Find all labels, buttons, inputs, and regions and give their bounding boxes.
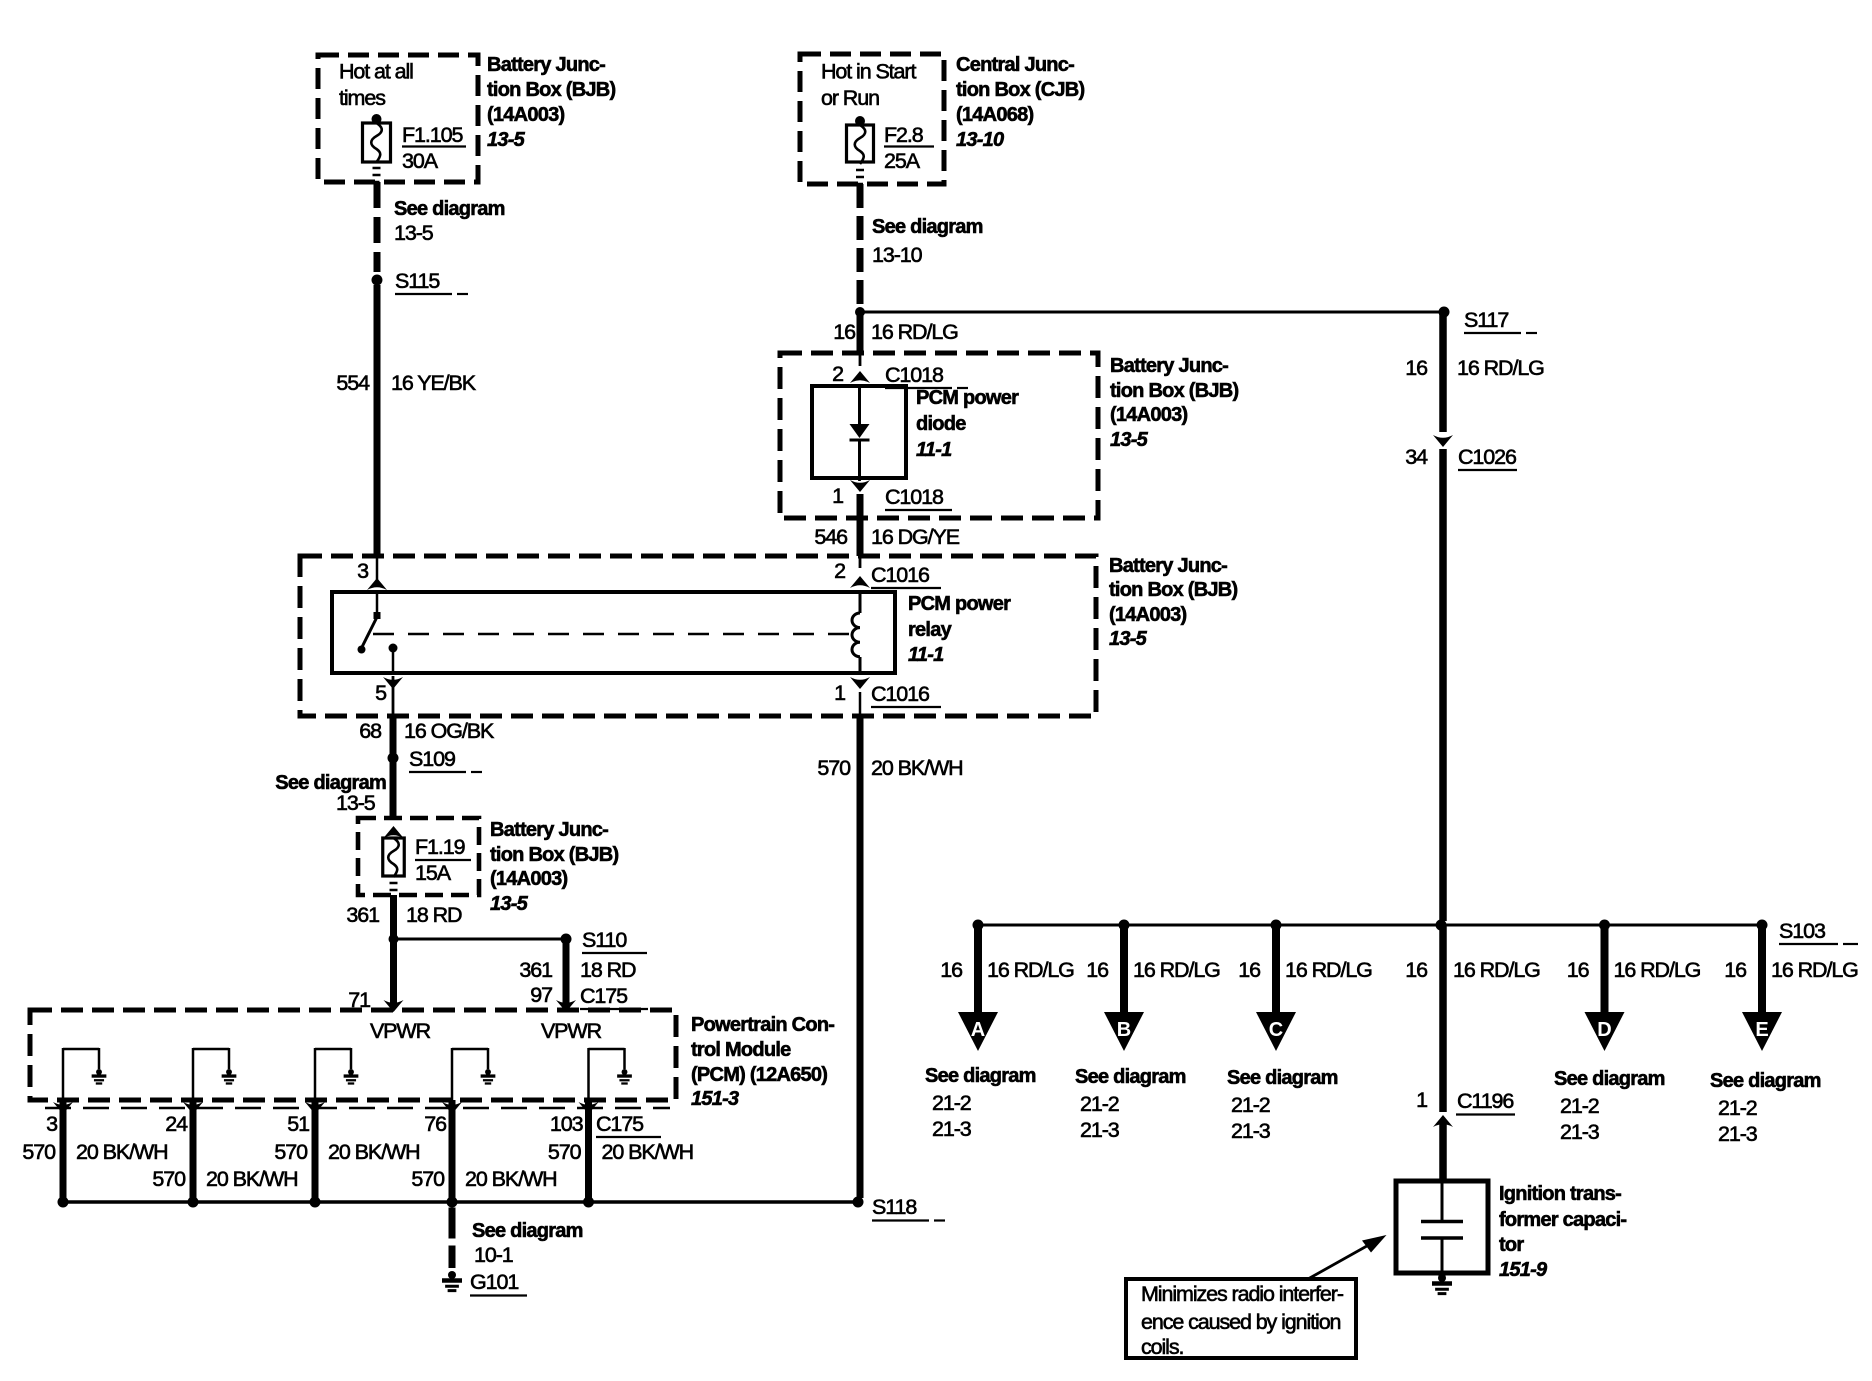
label: Ignition transformer capacitor 151-9 — [1499, 1183, 1626, 1281]
svg-text:10-1: 10-1 — [474, 1243, 513, 1267]
svg-text:Hot at all: Hot at all — [339, 60, 413, 84]
label: Hot at all times — [339, 60, 413, 111]
svg-text:F1.19: F1.19 — [415, 835, 465, 859]
wire 16 16 RD/LG: S117 to C1026 — [1439, 312, 1447, 432]
pin 1 connector arrow C1018 — [832, 478, 870, 508]
label: Hot in Start or Run — [821, 60, 916, 111]
connector label C1016 (pin 2) — [871, 563, 941, 588]
wire 16 RD/LG branch C — [1272, 928, 1280, 1012]
bus junction node 3 — [310, 1197, 321, 1208]
svg-text:tion Box (BJB): tion Box (BJB) — [487, 79, 615, 101]
wire label 16 / 16 RD/LG (branch D) — [1567, 958, 1701, 982]
bus junction node (main) — [1436, 920, 1447, 931]
battery junction box BJB (diode) dashed outline — [780, 353, 1098, 518]
label: See diagram 10-1 — [472, 1220, 583, 1267]
svg-text:See diagram: See diagram — [394, 198, 505, 220]
wire 16 RD/LG branch A — [974, 928, 982, 1012]
svg-text:151-3: 151-3 — [691, 1088, 739, 1110]
svg-text:2: 2 — [832, 362, 843, 386]
svg-text:21-2: 21-2 — [932, 1091, 971, 1115]
wire label 16 / 16 RD/LG (branch E) — [1724, 958, 1858, 982]
svg-text:former capaci-: former capaci- — [1499, 1209, 1626, 1231]
svg-text:C1016: C1016 — [871, 563, 930, 587]
svg-text:30A: 30A — [402, 149, 439, 173]
wire label 361 / 18 RD (S110 branch) — [519, 958, 636, 982]
svg-text:13-10: 13-10 — [956, 129, 1004, 151]
wire: S103 bus to C1196 — [1439, 925, 1447, 1112]
PCM pin 3 connector arrow — [53, 1102, 73, 1114]
wire 361 18 RD / 97 C175: S110 to PCM pin 97 — [563, 939, 570, 1008]
svg-text:16 YE/BK: 16 YE/BK — [391, 371, 477, 395]
svg-text:S109: S109 — [409, 747, 455, 771]
wire: branch to S110 — [394, 938, 567, 941]
svg-text:tion Box (BJB): tion Box (BJB) — [490, 844, 618, 866]
pin 2 connector arrow C1018 — [832, 362, 870, 386]
connector label C1196 — [1456, 1089, 1515, 1115]
svg-text:tion Box (BJB): tion Box (BJB) — [1109, 579, 1237, 601]
ground symbol inside PCM 1 — [92, 1069, 107, 1083]
svg-text:16 RD/LG: 16 RD/LG — [987, 958, 1074, 982]
svg-text:11-1: 11-1 — [908, 644, 944, 666]
svg-text:C175: C175 — [580, 984, 628, 1008]
wire label 16 / 16 RD/LG (branch A) — [940, 958, 1074, 982]
pin 97 connector arrow into PCM — [556, 1000, 576, 1012]
capacitor C symbol — [1421, 1183, 1463, 1271]
svg-text:VPWR: VPWR — [370, 1019, 431, 1043]
pin 24 label — [165, 1112, 188, 1136]
svg-text:S117: S117 — [1464, 308, 1508, 332]
label: Battery Junction Box (BJB) (14A003) 13-5 — [487, 54, 615, 151]
svg-text:361: 361 — [346, 903, 379, 927]
svg-text:13-5: 13-5 — [394, 221, 434, 245]
svg-text:trol Module: trol Module — [691, 1039, 791, 1061]
svg-text:21-2: 21-2 — [1560, 1094, 1599, 1118]
splice S110 — [561, 928, 648, 953]
ground G101 — [442, 1270, 527, 1296]
wire label 570 / 20 BK/WH (pin 3) — [22, 1140, 167, 1164]
svg-text:Hot in Start: Hot in Start — [821, 60, 916, 84]
connector label C1018 (pin 2) — [885, 363, 968, 388]
svg-text:16: 16 — [1405, 958, 1428, 982]
svg-text:See diagram: See diagram — [1710, 1070, 1821, 1092]
battery junction box BJB (relay) dashed outline — [300, 556, 1096, 716]
wire: junction to splice S117 — [860, 311, 1444, 314]
label: See diagram 21-2 21-3 (E) — [1710, 1070, 1821, 1146]
svg-text:21-2: 21-2 — [1718, 1096, 1757, 1120]
svg-text:68: 68 — [359, 719, 382, 743]
bus junction node A — [973, 920, 984, 931]
svg-text:21-3: 21-3 — [1560, 1120, 1600, 1144]
PCM pin 51 connector arrow — [305, 1102, 325, 1114]
svg-text:13-5: 13-5 — [1109, 628, 1148, 650]
svg-text:coils.: coils. — [1141, 1335, 1184, 1359]
svg-text:16 RD/LG: 16 RD/LG — [1285, 958, 1372, 982]
svg-text:15A: 15A — [415, 861, 452, 885]
svg-text:1: 1 — [834, 681, 845, 705]
net label VPWR (pin 71) — [370, 1019, 431, 1043]
connector label C1016 (pin 1) — [871, 682, 941, 707]
svg-text:E: E — [1755, 1019, 1768, 1041]
svg-text:361: 361 — [519, 958, 552, 982]
svg-text:D: D — [1597, 1019, 1611, 1041]
ground symbol inside PCM 3 — [344, 1069, 359, 1083]
wire label 16 / 16 RD/LG (right) — [1405, 356, 1544, 380]
svg-text:16 OG/BK: 16 OG/BK — [404, 719, 495, 743]
svg-text:S110: S110 — [582, 928, 627, 952]
svg-text:See diagram: See diagram — [1227, 1067, 1338, 1089]
relay K (PCM power relay) body rectangle — [332, 592, 895, 673]
svg-text:18 RD: 18 RD — [580, 958, 636, 982]
svg-text:16: 16 — [1238, 958, 1261, 982]
svg-text:times: times — [339, 86, 385, 110]
relay coil (pins 2-1) — [852, 592, 860, 673]
splice S118 — [853, 1195, 946, 1221]
wire: S118 to G101 (dashed thick) — [449, 1208, 456, 1269]
svg-text:See diagram: See diagram — [472, 1220, 583, 1242]
svg-text:(PCM) (12A650): (PCM) (12A650) — [691, 1064, 827, 1086]
wire label 16 / 16 RD/LG (diode feed) — [833, 320, 958, 344]
svg-text:25A: 25A — [884, 149, 921, 173]
svg-text:20 BK/WH: 20 BK/WH — [465, 1167, 557, 1191]
svg-text:570: 570 — [548, 1140, 582, 1164]
wire: capacitor to ground — [1439, 1271, 1446, 1278]
pin 51 label — [287, 1112, 309, 1136]
svg-text:tion Box (CJB): tion Box (CJB) — [956, 79, 1084, 101]
relay switch (pins 3-5) — [358, 592, 398, 673]
ground (capacitor) — [1432, 1274, 1452, 1294]
wire 570 20 BK/WH pin 51 to S118 bus — [312, 1100, 319, 1202]
svg-text:S118: S118 — [872, 1195, 917, 1219]
pin 5 connector arrow — [375, 677, 403, 705]
wire 16 RD/LG branch B — [1120, 928, 1128, 1012]
wire label 570 / 20 BK/WH (pin 24) — [152, 1167, 297, 1191]
off-page arrow C — [1256, 1012, 1296, 1051]
svg-text:13-10: 13-10 — [872, 243, 923, 267]
svg-text:C: C — [1269, 1019, 1283, 1041]
svg-text:Powertrain Con-: Powertrain Con- — [691, 1014, 834, 1036]
PCM internal ground loop 4 — [452, 1048, 488, 1100]
off-page arrow E — [1742, 1012, 1782, 1051]
label: Battery Junction Box (BJB) (14A003) 13-5 (relay) — [1109, 555, 1237, 650]
label: See diagram 13-5 (S109) — [275, 772, 386, 815]
svg-text:5: 5 — [375, 681, 387, 705]
svg-text:13-5: 13-5 — [1110, 429, 1149, 451]
connector label C175 (pin 103) — [596, 1112, 661, 1137]
svg-text:21-3: 21-3 — [1718, 1122, 1758, 1146]
splice S103 label — [1779, 919, 1858, 944]
svg-text:21-3: 21-3 — [1231, 1119, 1271, 1143]
svg-text:151-9: 151-9 — [1499, 1259, 1548, 1281]
label: See diagram 13-5 (left) — [394, 198, 505, 245]
wire label 554 / 16 YE/BK — [336, 371, 476, 395]
label: See diagram 21-2 21-3 (D) — [1554, 1068, 1665, 1144]
label: Battery Junction Box (BJB) (14A003) 13-5 (diode) — [1110, 355, 1238, 451]
svg-text:diode: diode — [916, 413, 966, 435]
wire 16 RD/LG branch D — [1601, 928, 1609, 1012]
PCM pin 24 connector arrow — [183, 1102, 203, 1114]
battery junction box BJB (F1.105) dashed outline — [318, 55, 478, 182]
node: junction at S110 branch — [389, 934, 399, 944]
svg-text:See diagram: See diagram — [925, 1065, 1036, 1087]
wire 361 18 RD: F1.19 to PCM pin 71 — [390, 895, 397, 1008]
svg-text:S115: S115 — [395, 269, 440, 293]
svg-text:S103: S103 — [1779, 919, 1826, 943]
svg-text:Central Junc-: Central Junc- — [956, 54, 1074, 76]
svg-text:Minimizes radio interfer-: Minimizes radio interfer- — [1141, 1282, 1344, 1306]
pin 97 label and connector C175 — [530, 983, 648, 1009]
wire label 546 / 16 DG/YE — [814, 525, 959, 549]
wire: C1196 to ignition transformer capacitor — [1439, 1124, 1447, 1181]
svg-text:2: 2 — [834, 559, 845, 583]
fuse F1.19 — [383, 838, 405, 897]
pin 1 connector arrow C1196 — [1416, 1088, 1453, 1127]
svg-text:or Run: or Run — [821, 86, 879, 110]
wire 554 16 YE/BK: S115 to PCM power relay pin 3 — [374, 285, 381, 582]
svg-text:16: 16 — [833, 320, 856, 344]
wire: fuse F1.105 to S115 (dashed thick) — [374, 182, 381, 272]
svg-text:20 BK/WH: 20 BK/WH — [206, 1167, 298, 1191]
wire label 361 / 18 RD — [346, 903, 462, 927]
svg-text:570: 570 — [411, 1167, 445, 1191]
svg-text:16 RD/LG: 16 RD/LG — [1771, 958, 1858, 982]
svg-text:18 RD: 18 RD — [406, 903, 462, 927]
svg-text:3: 3 — [46, 1112, 58, 1136]
svg-text:51: 51 — [287, 1112, 309, 1136]
svg-text:16: 16 — [1405, 356, 1428, 380]
label: PCM power relay 11-1 — [908, 593, 1011, 666]
ground symbol inside PCM 5 — [617, 1069, 632, 1083]
svg-text:(14A003): (14A003) — [1109, 604, 1186, 626]
svg-text:570: 570 — [152, 1167, 186, 1191]
PCM pin 76 connector arrow — [442, 1102, 462, 1114]
callout note box — [1126, 1279, 1356, 1359]
wire label 570 / 20 BK/WH (pin 51) — [274, 1140, 419, 1164]
wire label 16 / 16 RD/LG (branch B) — [1086, 958, 1220, 982]
svg-text:Battery Junc-: Battery Junc- — [1109, 555, 1227, 577]
wire 16 RD/LG branch E — [1758, 928, 1766, 1012]
svg-text:tion Box (BJB): tion Box (BJB) — [1110, 380, 1238, 402]
wire 546 16 DG/YE: diode to relay pin 2 — [857, 494, 864, 568]
svg-text:A: A — [971, 1019, 985, 1041]
svg-text:VPWR: VPWR — [541, 1019, 602, 1043]
wire label 570 / 20 BK/WH (pin 76) — [411, 1167, 556, 1191]
svg-text:C1018: C1018 — [885, 485, 944, 509]
wire 570 20 BK/WH pin 3 to S118 bus — [60, 1100, 67, 1202]
svg-text:3: 3 — [357, 559, 369, 583]
splice S115 — [372, 269, 469, 294]
label: Central Junction Box (CJB) (14A068) 13-10 — [956, 54, 1084, 151]
label: See diagram 21-2 21-3 (C) — [1227, 1067, 1338, 1143]
PCM power diode body rectangle — [812, 386, 906, 478]
svg-text:Battery Junc-: Battery Junc- — [487, 54, 605, 76]
PCM pin 103 connector arrow — [579, 1102, 599, 1114]
svg-text:(14A003): (14A003) — [1110, 404, 1187, 426]
svg-text:C1026: C1026 — [1458, 445, 1517, 469]
svg-text:See diagram: See diagram — [1554, 1068, 1665, 1090]
svg-text:1: 1 — [832, 484, 843, 508]
value label F1.19 / 15A — [415, 835, 471, 885]
svg-text:34: 34 — [1405, 445, 1428, 469]
label: Battery Junction Box (BJB) (14A003) 13-5 (F1.19) — [490, 819, 618, 915]
wire label 570 / 20 BK/WH (relay) — [817, 756, 962, 780]
svg-text:Ignition trans-: Ignition trans- — [1499, 1183, 1621, 1205]
svg-text:Battery Junc-: Battery Junc- — [490, 819, 608, 841]
pin 71 label — [348, 988, 370, 1012]
wire 570 20 BK/WH pin 76 to S118 bus — [449, 1100, 456, 1202]
svg-text:76: 76 — [424, 1112, 447, 1136]
svg-text:16 RD/LG: 16 RD/LG — [871, 320, 958, 344]
wire 68 16 OG/BK: relay pin 5 to S109 — [392, 676, 395, 820]
pin 2 connector arrow C1016 — [834, 559, 870, 588]
svg-text:ence caused by ignition: ence caused by ignition — [1141, 1310, 1341, 1334]
svg-text:16 RD/LG: 16 RD/LG — [1457, 356, 1544, 380]
bus junction node 4 — [447, 1197, 458, 1208]
svg-text:20 BK/WH: 20 BK/WH — [76, 1140, 168, 1164]
svg-text:97: 97 — [530, 983, 552, 1007]
net label VPWR (pin 97) — [541, 1019, 602, 1043]
svg-text:24: 24 — [165, 1112, 188, 1136]
svg-text:tor: tor — [1499, 1234, 1524, 1256]
node: fuse F2.8 supply dot — [855, 116, 865, 126]
svg-text:See diagram: See diagram — [1075, 1066, 1186, 1088]
svg-text:C1018: C1018 — [885, 363, 944, 387]
svg-text:F1.105: F1.105 — [402, 123, 463, 147]
value label F1.105 / 30A — [402, 123, 466, 173]
svg-text:F2.8: F2.8 — [884, 123, 924, 147]
svg-text:(14A068): (14A068) — [956, 104, 1033, 126]
PCM internal ground loop 3 — [315, 1048, 351, 1100]
bus junction node 2 — [188, 1197, 199, 1208]
battery junction box BJB (F1.19) dashed outline — [358, 818, 479, 895]
svg-text:21-2: 21-2 — [1231, 1093, 1270, 1117]
svg-text:C1196: C1196 — [1457, 1089, 1514, 1113]
wire: junction into diode box — [857, 312, 864, 366]
off-page arrow B — [1104, 1012, 1144, 1051]
svg-text:21-3: 21-3 — [932, 1117, 972, 1141]
svg-text:16 RD/LG: 16 RD/LG — [1453, 958, 1540, 982]
central junction box CJB dashed outline — [800, 54, 944, 184]
svg-text:relay: relay — [908, 619, 953, 641]
wire 570 20 BK/WH pin 103 to S118 bus — [585, 1100, 592, 1202]
svg-text:20 BK/WH: 20 BK/WH — [328, 1140, 420, 1164]
wire: C1026 to S103 bus — [1439, 449, 1447, 921]
svg-text:(14A003): (14A003) — [487, 104, 564, 126]
node: fuse F1.105 supply dot — [372, 114, 382, 124]
wire label 16 / 16 RD/LG (capacitor feed) — [1405, 958, 1540, 982]
svg-text:21-3: 21-3 — [1080, 1118, 1120, 1142]
pin 71 connector arrow into PCM — [384, 1000, 404, 1012]
value label F2.8 / 25A — [884, 123, 934, 173]
ground symbol inside PCM 2 — [222, 1069, 237, 1083]
splice bus S103 — [978, 924, 1762, 927]
ground bus wire to S118 — [63, 1200, 858, 1204]
svg-text:13-5: 13-5 — [490, 893, 529, 915]
fuse F1.19 connector arrow — [384, 826, 404, 838]
svg-text:570: 570 — [817, 756, 851, 780]
wire label 570 / 20 BK/WH (pin 103) — [548, 1140, 693, 1164]
svg-text:(14A003): (14A003) — [490, 868, 567, 890]
svg-text:16: 16 — [1567, 958, 1590, 982]
diode D (PCM power diode) symbol — [850, 386, 870, 478]
pin 76 label — [424, 1112, 447, 1136]
fuse F1.105 — [363, 123, 391, 182]
svg-text:21-2: 21-2 — [1080, 1092, 1119, 1116]
wire: fuse F2.8 to S117 junction (dashed thick) — [857, 184, 864, 305]
wire label 16 / 16 RD/LG (branch C) — [1238, 958, 1372, 982]
ground symbol inside PCM 4 — [481, 1069, 496, 1083]
svg-text:C175: C175 — [596, 1112, 644, 1136]
svg-text:B: B — [1117, 1019, 1131, 1041]
svg-text:20 BK/WH: 20 BK/WH — [602, 1140, 694, 1164]
svg-text:16 RD/LG: 16 RD/LG — [1614, 958, 1701, 982]
PCM internal ground loop 5 — [589, 1048, 625, 1100]
svg-text:103: 103 — [550, 1112, 584, 1136]
pin 3 connector arrow — [357, 559, 387, 590]
svg-text:See diagram: See diagram — [872, 216, 983, 238]
pin 34 connector arrow C1026 — [1405, 435, 1453, 469]
PCM internal ground loop 2 — [193, 1048, 229, 1100]
bus junction node C — [1271, 920, 1282, 931]
fuse F2.8 — [847, 125, 874, 184]
bus junction node B — [1119, 920, 1130, 931]
svg-text:554: 554 — [336, 371, 370, 395]
svg-text:570: 570 — [274, 1140, 308, 1164]
bus junction node 1 — [58, 1197, 69, 1208]
bus junction node E — [1757, 920, 1768, 931]
svg-text:16 RD/LG: 16 RD/LG — [1133, 958, 1220, 982]
svg-text:C1016: C1016 — [871, 682, 930, 706]
PCM internal ground loop 1 — [63, 1048, 99, 1100]
connector label C1026 — [1458, 445, 1517, 470]
node: junction to S117 — [855, 307, 865, 317]
callout arrow to capacitor — [1308, 1235, 1387, 1279]
pin 103 label — [550, 1112, 584, 1136]
off-page arrow D — [1585, 1012, 1625, 1051]
label: Powertrain Control Module (PCM) (12A650) 151-3 — [691, 1014, 834, 1110]
splice S117 — [1439, 307, 1538, 334]
svg-text:11-1: 11-1 — [916, 439, 952, 461]
label: PCM power diode 11-1 — [916, 387, 1019, 461]
svg-text:1: 1 — [1416, 1088, 1427, 1112]
label: See diagram 21-2 21-3 (B) — [1075, 1066, 1186, 1142]
label: See diagram 13-10 — [872, 216, 983, 267]
bus junction node 5 — [583, 1197, 594, 1208]
svg-text:16 DG/YE: 16 DG/YE — [871, 525, 960, 549]
wire 570 20 BK/WH pin 24 to S118 bus — [190, 1100, 197, 1202]
svg-text:PCM power: PCM power — [916, 387, 1019, 409]
Powertrain Control Module (PCM) dashed outline — [30, 1010, 676, 1100]
svg-text:13-5: 13-5 — [336, 791, 376, 815]
svg-text:16: 16 — [940, 958, 963, 982]
pin 1 connector arrow C1016 — [834, 677, 870, 705]
off-page arrow A — [958, 1012, 998, 1051]
ignition transformer capacitor C body rectangle — [1396, 1181, 1488, 1273]
svg-text:13-5: 13-5 — [487, 129, 526, 151]
label: See diagram 21-2 21-3 (A) — [925, 1065, 1036, 1141]
PCM connector face dashed line — [45, 1107, 670, 1110]
svg-text:G101: G101 — [470, 1270, 518, 1294]
wire label 68 / 16 OG/BK — [359, 719, 495, 743]
svg-text:20 BK/WH: 20 BK/WH — [871, 756, 963, 780]
relay internal dashed link — [373, 633, 850, 636]
svg-text:PCM power: PCM power — [908, 593, 1011, 615]
bus junction node D — [1599, 920, 1610, 931]
wire 570 20 BK/WH: relay pin 1 to S118 — [859, 692, 862, 1198]
splice S109 — [388, 747, 483, 772]
svg-text:Battery Junc-: Battery Junc- — [1110, 355, 1228, 377]
svg-text:570: 570 — [22, 1140, 56, 1164]
connector label C1018 (pin 1) — [885, 485, 952, 510]
